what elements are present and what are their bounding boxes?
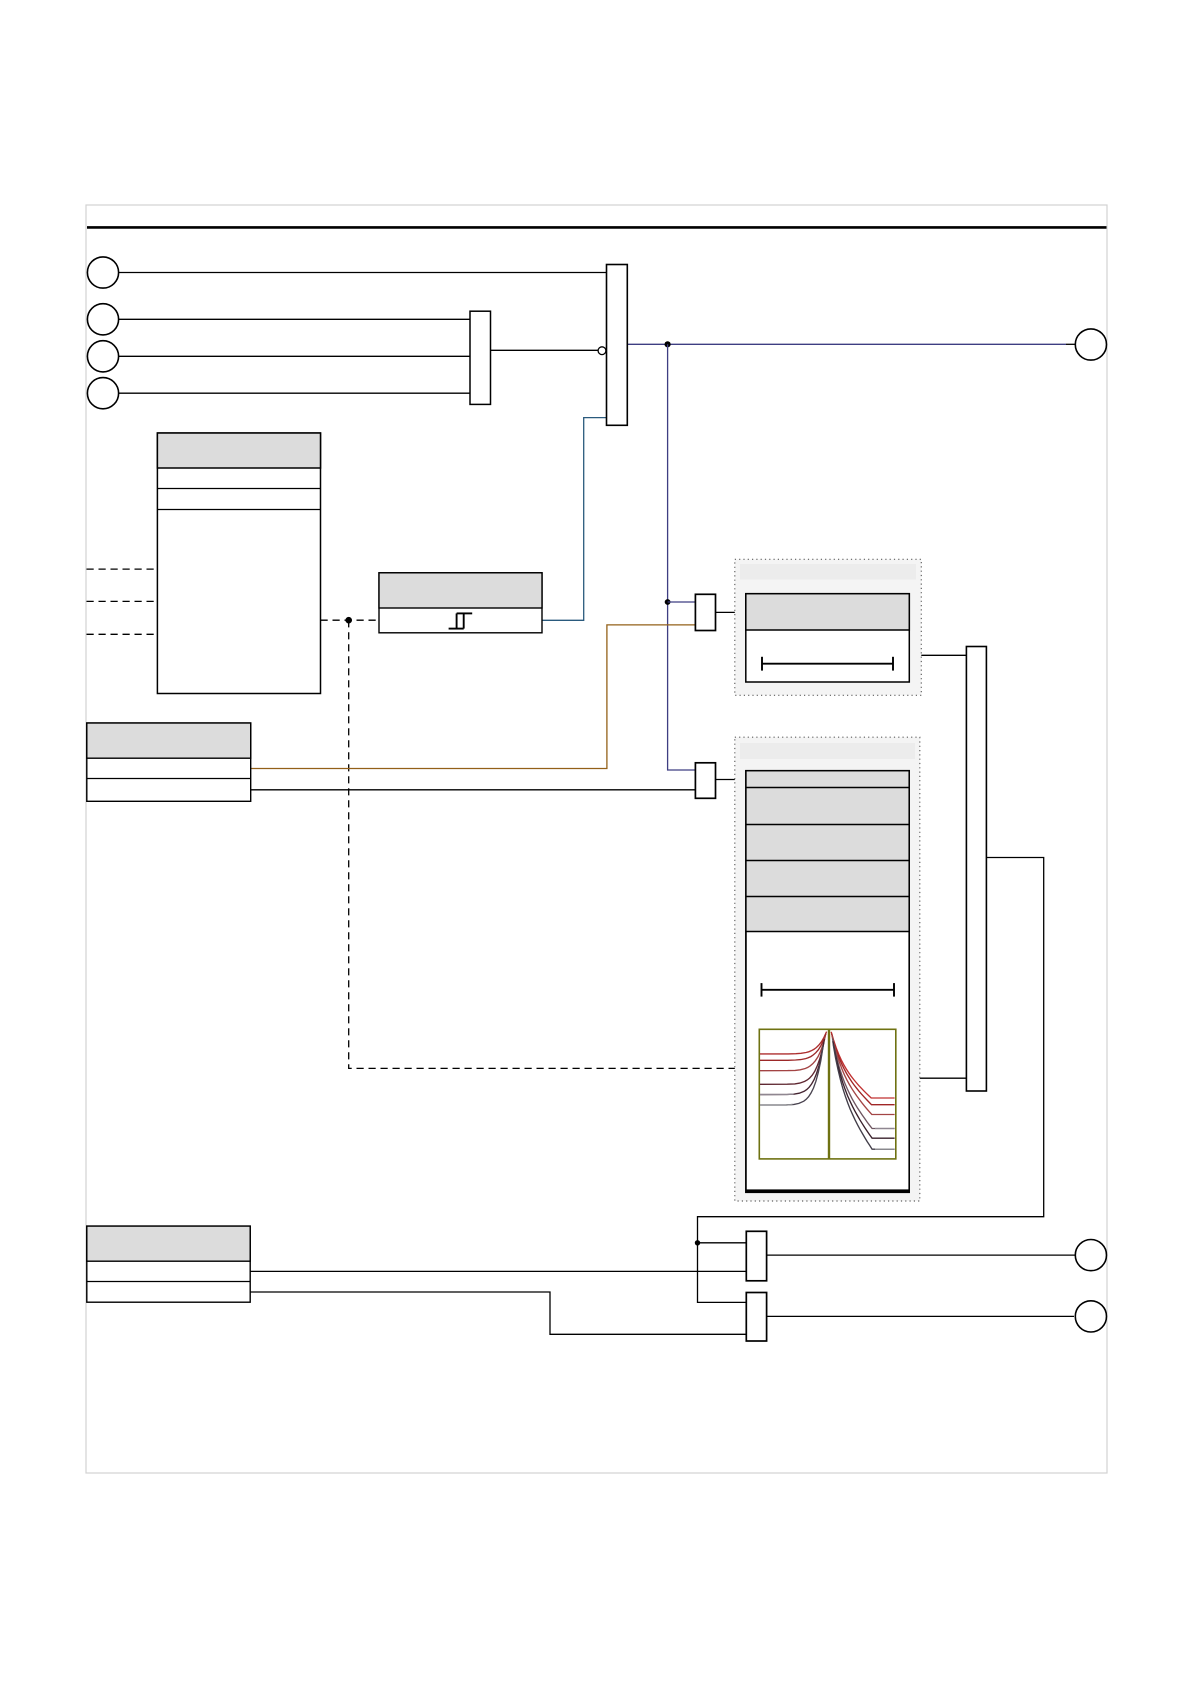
SECTION: wires bbox=[87, 273, 1076, 1335]
subsystem 2 gray row 2 bbox=[746, 787, 909, 824]
plot curves right bbox=[831, 1032, 894, 1149]
relay block header bbox=[379, 573, 542, 608]
wire brown from sensor block bbox=[251, 625, 696, 769]
wire In3 to Mux bbox=[119, 355, 471, 357]
wire subsystem 1 to demux bbox=[909, 654, 966, 656]
wire In2 to Mux bbox=[119, 318, 471, 320]
subsystem 2 dotted border bbox=[735, 737, 920, 1201]
title separator bar bbox=[87, 226, 1107, 229]
wire junction branch to Mux4 bbox=[698, 1242, 747, 1244]
dashed conserving port stub 1 bbox=[87, 568, 158, 570]
mux3 small block bbox=[695, 763, 715, 799]
bottom sensor block row line bbox=[87, 1281, 250, 1283]
subsystem 2 bottom thick edge bbox=[746, 1189, 909, 1192]
wire black from sensor block to Mux3 bbox=[251, 789, 696, 791]
wire In1 to Switch bbox=[119, 272, 607, 274]
wire subsystem 2 to demux bbox=[909, 1077, 966, 1079]
subsystem 2 row separators bbox=[746, 788, 909, 932]
subsystem 1 inner block header bbox=[746, 594, 910, 630]
subsystem 2 gray row 1 bbox=[746, 771, 909, 787]
wire Switch output (navy) bbox=[627, 343, 1066, 345]
wire Mux2 to subsystem 1 bbox=[716, 611, 746, 613]
inport 1 bbox=[87, 257, 118, 288]
inport 4 bbox=[87, 378, 118, 409]
sensor block mid-left header bbox=[87, 723, 251, 758]
battery curves plot frame bbox=[759, 1029, 896, 1159]
mux block (inputs 2-4) bbox=[470, 311, 491, 404]
switch block bbox=[607, 265, 628, 426]
outport 2 bbox=[1075, 1240, 1106, 1271]
unconnected port circle at Switch control bbox=[598, 347, 606, 355]
subsystem 2 inner block body bbox=[746, 771, 909, 1193]
subsystem 1 slider icon bbox=[762, 657, 893, 671]
wire Mux5 to Out3 bbox=[767, 1315, 1074, 1317]
junction node navy branch bbox=[665, 599, 671, 605]
sensor block mid-left row line bbox=[87, 778, 251, 780]
subsystem 1 inner block body bbox=[746, 594, 910, 682]
dashed wire down to thermal subsystem bbox=[349, 620, 746, 1068]
wire stub into Out1 bbox=[1066, 343, 1075, 345]
outport 1 bbox=[1075, 329, 1106, 360]
inport 3 bbox=[87, 341, 118, 372]
demux tall block bbox=[966, 647, 986, 1092]
wire bottom sensor row2 to Mux5 bbox=[250, 1292, 746, 1334]
dashed wire battery block to relay bbox=[321, 619, 380, 621]
subsystem 1 dotted border bbox=[735, 559, 922, 695]
junction node bottom bbox=[695, 1240, 700, 1245]
subsystem 2 gray row 3 bbox=[746, 824, 909, 860]
bottom sensor block body bbox=[87, 1226, 250, 1302]
wire relay output (steel blue) bbox=[542, 418, 607, 621]
relay icon bbox=[449, 613, 473, 628]
inport 2 bbox=[87, 304, 118, 335]
wire In4 to Mux bbox=[119, 392, 471, 394]
subsystem 2 slider icon bbox=[762, 983, 895, 997]
battery block row line 1 bbox=[157, 488, 320, 490]
wire Mux3 to subsystem 2 bbox=[716, 779, 746, 781]
subsystem 2 inner block border redraw bbox=[746, 771, 909, 1193]
wire bottom sensor row1 to Mux4 bbox=[250, 1270, 746, 1272]
dashed conserving port stub 3 bbox=[87, 633, 158, 635]
junction node dashed bbox=[345, 617, 352, 624]
sensor block mid-left body bbox=[87, 723, 251, 801]
mux5 small block bbox=[746, 1293, 766, 1342]
mux2 small block bbox=[695, 594, 715, 630]
subsystem 2 dotted area bbox=[735, 737, 920, 1201]
wire demux output loop down bbox=[698, 858, 1044, 1303]
SECTION: blocks bbox=[87, 257, 1107, 1341]
subsystem 1 header band bbox=[740, 564, 916, 580]
battery curves plot divider bbox=[828, 1029, 830, 1159]
wire Mux4 to Out2 bbox=[767, 1254, 1076, 1256]
subsystem 1 dotted area bbox=[735, 559, 922, 695]
junction node on switch output bbox=[665, 341, 671, 347]
battery block row line 2 bbox=[157, 509, 320, 511]
relay block body bbox=[379, 573, 542, 633]
bottom sensor block header bbox=[87, 1226, 250, 1261]
subsystem 2 gray row 4 bbox=[746, 860, 909, 896]
wire navy vertical drop bbox=[668, 344, 696, 770]
plot curves left bbox=[760, 1032, 827, 1105]
battery block body bbox=[157, 433, 320, 694]
page frame bbox=[86, 205, 1107, 1473]
battery block header bbox=[157, 433, 320, 468]
subsystem 2 gray row 5 bbox=[746, 896, 909, 931]
subsystem 2 header band bbox=[740, 743, 915, 759]
outport 3 bbox=[1075, 1301, 1106, 1332]
plot curve gray accents bbox=[760, 1094, 895, 1149]
wire navy branch to Mux2 bbox=[668, 601, 696, 603]
dashed conserving port stub 2 bbox=[87, 600, 158, 602]
wire Mux to Switch control bbox=[491, 349, 599, 351]
mux4 small block bbox=[746, 1231, 766, 1281]
